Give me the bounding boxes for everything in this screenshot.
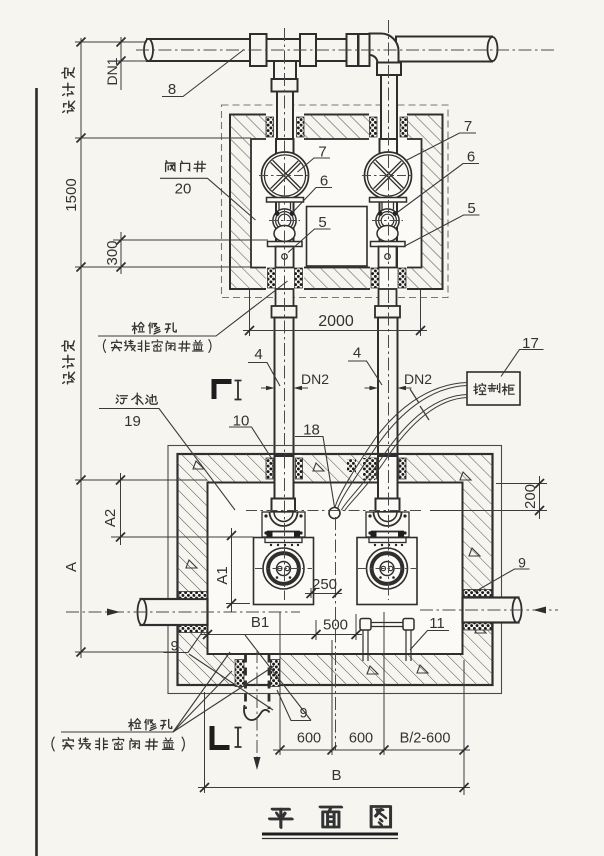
concrete triangles in pool walls (186, 461, 486, 674)
svg-text:6: 6 (467, 149, 475, 166)
svg-text:10: 10 (233, 413, 250, 430)
check valve 6 (right) (376, 209, 399, 232)
text （安装非密闭井盖） (lower) (52, 737, 184, 751)
drawing frame border (left) (35, 88, 38, 856)
handwheel flange bar (left) (267, 198, 304, 210)
pipe sleeve specks at well bottom wall (pipe 1) (268, 268, 303, 288)
leader: item 4 left (248, 363, 280, 387)
svg-text:250: 250 (312, 576, 337, 593)
leader: item 9 left (164, 630, 274, 711)
sump opening rectangle inside valve well (307, 207, 368, 267)
pipe sleeve specks at well top wall (pipe 2) (370, 117, 408, 137)
crosshairs: handwheels (259, 175, 414, 177)
inlet pipe centerline (left) with flow arrow (66, 609, 300, 616)
sewage pool 19: inner wall rectangle (208, 483, 463, 655)
drain pipe centerline with flow arrow (254, 650, 261, 770)
svg-text:500: 500 (323, 617, 348, 634)
header pipe 8 (horizontal, left section) (144, 39, 366, 61)
svg-text:A2: A2 (102, 509, 119, 527)
label 18 (303, 422, 320, 439)
label 5 right (467, 200, 475, 217)
rotated dimension text 300 (104, 240, 121, 265)
drain pipe (dashed) through pool bottom wall (244, 655, 269, 721)
label 6 right (467, 149, 475, 166)
crosshair: pump flange level (246, 510, 424, 512)
svg-text:2000: 2000 (318, 313, 354, 330)
leader: item 7 left (298, 158, 331, 172)
label 19 (124, 413, 141, 430)
rotated dimension text A1 (214, 566, 231, 584)
pipe sleeve specks at well top wall (pipe 1) (266, 117, 304, 137)
flange 5 (left) (268, 242, 303, 247)
white gaps where pipes cross well walls (266, 112, 407, 291)
dimension text 2000 (318, 313, 354, 330)
label 4 left (254, 346, 262, 363)
header pipe (horizontal, right section with end cap) (396, 37, 498, 62)
pump 1 pedestal square (254, 538, 314, 605)
sewage pool 19: outer wall rectangle (178, 454, 493, 685)
rotated dimension text 200 (522, 484, 539, 509)
svg-text:9: 9 (300, 705, 308, 721)
pipe 1 segment down to pool (275, 318, 294, 457)
centerline of riser pipe 2 (388, 20, 390, 600)
svg-text:1500: 1500 (63, 178, 80, 211)
inlet pipe 9 (left) (138, 599, 208, 625)
leader: item 9 bottom (245, 635, 311, 721)
svg-text:5: 5 (467, 200, 475, 217)
svg-text:19: 19 (124, 413, 141, 430)
callout: inspection holes (upper) (98, 281, 288, 336)
svg-text:7: 7 (464, 118, 472, 135)
dimension text B/2-600 (400, 731, 451, 747)
svg-text:B: B (331, 767, 341, 784)
cable end junction circle 18 (329, 508, 340, 519)
pump 2 body circles (367, 548, 408, 589)
dimension text DN2 left (301, 371, 329, 387)
rotated dimension text 1500 (63, 178, 80, 211)
riser pipe 2 inside pool down to pump collar (378, 456, 398, 499)
tee fitting coupling bands (250, 34, 316, 66)
svg-text:8: 8 (168, 81, 176, 98)
svg-text:4: 4 (353, 345, 361, 362)
label 9 bottom (300, 705, 308, 721)
leader: item 11 (410, 631, 449, 651)
callout: sewage pool 19 (99, 409, 235, 511)
label 10 (233, 413, 250, 430)
label 9 left (171, 638, 179, 654)
svg-text:4: 4 (254, 346, 262, 363)
pipe sleeve specks at well bottom wall (pipe 2) (371, 268, 406, 288)
cable duct specks at pool top wall (347, 458, 375, 480)
dimension text DN2 right (404, 371, 432, 387)
leader: item 5 right (403, 215, 480, 247)
pump 2 flange joint (dark bar) (369, 531, 406, 546)
vertical pipe 2 through well interior (380, 139, 398, 267)
section marker I (top) (214, 381, 242, 400)
300 dimension (117, 232, 126, 274)
pump 1 elbow flange plate (262, 512, 305, 537)
text 控制柜 (474, 383, 514, 394)
dimension text 600 (right) (349, 731, 373, 747)
text 检修孔 (upper) (132, 322, 176, 334)
svg-text:A1: A1 (214, 566, 231, 584)
svg-text:11: 11 (429, 615, 445, 632)
handwheel flange bar (right) (370, 198, 407, 210)
left main dimension line (75, 38, 268, 658)
leader: item 5 left (288, 229, 331, 253)
label 6 left (320, 173, 328, 190)
pump 2 pedestal square (357, 538, 417, 605)
power cables from control cabinet to pumps (335, 383, 467, 512)
label 20 (175, 181, 192, 198)
callout: inspection holes (lower), fan of leaders (61, 652, 274, 732)
centerline of header pipe (136, 49, 555, 51)
centerline between pumps (mid axis) (335, 517, 337, 750)
valve well 20: inner wall rectangle (251, 139, 422, 268)
valve body (right) (377, 226, 398, 242)
union coupling bands near elbow (347, 34, 370, 66)
valve well 20: outer wall rectangle (230, 115, 443, 290)
rotated text 设计定 (lower left) (62, 341, 75, 384)
label 7 right (464, 118, 472, 135)
svg-text:600: 600 (349, 731, 373, 747)
label 7 left (318, 144, 326, 161)
white gaps where risers cross pool top wall (179, 455, 492, 684)
leader: item 6 right (397, 164, 480, 214)
sleeve specks at pool top wall (pipe 2) (370, 458, 407, 479)
pump 2 elbow flange plate (366, 512, 409, 537)
leader: item 10 (229, 427, 272, 459)
tee branch outlet down (272, 61, 298, 92)
250 dimension (305, 588, 342, 598)
pipe 1 from well floor down to collar (276, 289, 294, 307)
callout: valve well 20 (160, 178, 256, 220)
pipe 2 from well floor down to collar (379, 289, 397, 307)
svg-text:DN2: DN2 (301, 371, 329, 387)
svg-text:17: 17 (522, 335, 539, 352)
svg-text:B1: B1 (251, 614, 269, 631)
200 dimension (430, 476, 547, 519)
rotated text 设计定 (upper left) (62, 68, 75, 113)
flange 5 (right) (371, 242, 406, 247)
text 阀门井 (166, 161, 206, 172)
pump 1 flange joint (dark bar) (265, 531, 302, 546)
check valve 6 (left) (273, 209, 296, 232)
sleeve specks at pool top wall (pipe 1) (266, 458, 303, 479)
svg-text:20: 20 (175, 181, 192, 198)
pipe below flange into well floor (right) (379, 247, 397, 268)
leader: item 6 left (293, 188, 333, 213)
pump 1 body circles (263, 548, 304, 589)
pump 1 discharge collar (272, 499, 296, 513)
svg-text:600: 600 (297, 731, 321, 747)
rotated dimension text DN1 (104, 57, 120, 85)
pump 1 discharge elbow (half-annulus) (270, 512, 298, 526)
dimension text 600 (left) (297, 731, 321, 747)
svg-text:9: 9 (518, 555, 526, 571)
dimension text 250 (312, 576, 337, 593)
2000 dimension (243, 290, 427, 336)
label 11 (429, 615, 445, 632)
label 17 (522, 335, 539, 352)
pump 2 discharge elbow (half-annulus) (374, 512, 402, 526)
svg-text:6: 6 (320, 173, 328, 190)
svg-text:5: 5 (318, 214, 326, 231)
A2 dimension (116, 473, 125, 545)
svg-text:DN1: DN1 (104, 57, 120, 85)
inlet pipe centerline (right) with flow arrow (420, 607, 558, 614)
crosshairs: check valves (269, 220, 403, 222)
section marker I (bottom) (212, 726, 242, 748)
leader: item 17 (501, 350, 544, 377)
sewage pool 19: wall hatching (178, 454, 493, 685)
svg-text:7: 7 (318, 144, 326, 161)
centerline of riser pipe 1 (284, 28, 286, 600)
pipe below flange into well floor (left) (276, 247, 294, 268)
600+600+B/2-600 dimension row (273, 612, 470, 795)
label 8 (168, 81, 176, 98)
svg-text:DN2: DN2 (404, 371, 432, 387)
leader: item 4 right (348, 361, 382, 385)
leader: item 7 right (405, 133, 476, 161)
gate valve handwheel 7 (left) (262, 152, 309, 199)
vertical pipe 4 (right riser, upper) (381, 75, 397, 140)
valve well 20: dashed outline (222, 105, 449, 298)
valve body (left) (274, 226, 295, 242)
label 9 right (518, 555, 526, 571)
sleeve specks at pool right wall (inlet pipe) (464, 590, 492, 631)
svg-text:18: 18 (303, 422, 320, 439)
dimension text B (331, 767, 341, 784)
valve well 20: wall hatching (230, 115, 443, 290)
pump 2 discharge collar (376, 499, 400, 513)
text 检修孔 (lower) (129, 719, 172, 731)
gate valve handwheel 7 (right) (365, 152, 412, 199)
svg-text:A: A (63, 562, 80, 572)
rotated dimension text A (63, 562, 80, 572)
crosshairs: pumps (255, 568, 416, 570)
sewage pool 19: outermost thin rectangle (168, 446, 502, 694)
sleeve specks at pool left wall (inlet pipe) (179, 592, 207, 633)
dimension text B1 (251, 614, 269, 631)
B1 / 500 dimension line (201, 614, 362, 640)
label 4 right (353, 345, 361, 362)
svg-text:B/2-600: B/2-600 (400, 731, 451, 747)
DN2 diameter arrows (pipe 1) (261, 386, 308, 390)
collar joint below well (pipe 2) (375, 306, 400, 318)
leader: item 18 (295, 437, 335, 508)
A1 dimension (226, 528, 250, 612)
svg-text:9: 9 (171, 638, 179, 654)
text 污水池 (116, 393, 157, 404)
text （安装非密闭井盖） (upper) (103, 340, 211, 353)
label 5 left (318, 214, 326, 231)
pipe 2 segment down to pool (378, 318, 398, 457)
leader: item 8 (162, 50, 244, 97)
guide rail brackets 11 (360, 619, 414, 662)
vertical pipe 1 through well interior (276, 139, 294, 267)
DN2 diameter arrows (pipe 2) (365, 386, 412, 390)
rotated dimension text A2 (102, 509, 119, 527)
title 平面图 (269, 806, 391, 828)
elbow fitting (370, 34, 402, 76)
sleeve specks at drain pipe (235, 660, 280, 687)
title underline (thick and thin) (262, 834, 398, 839)
leader: item 9 right (475, 569, 530, 592)
riser pipe 1 inside pool down to pump collar (275, 456, 294, 499)
svg-text:200: 200 (522, 484, 539, 509)
collar joint below well (pipe 1) (272, 306, 297, 318)
vertical pipe 4 (left riser, upper) (277, 92, 293, 140)
B dimension (198, 692, 470, 793)
inlet pipe 9 (right) (463, 598, 522, 623)
svg-text:300: 300 (104, 240, 121, 265)
dimension text 500 (323, 617, 348, 634)
DN1 dimension (117, 37, 126, 90)
control cabinet 17 box (467, 372, 520, 405)
